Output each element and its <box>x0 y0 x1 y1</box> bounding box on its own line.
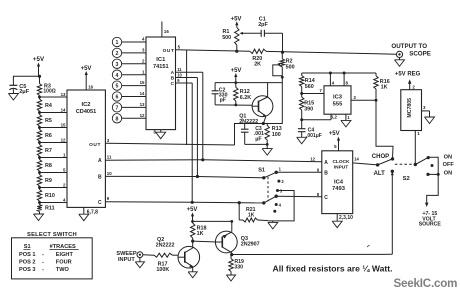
svg-text:100K: 100K <box>156 267 169 273</box>
svg-text:B: B <box>171 76 175 82</box>
wire to scope jack <box>266 51 396 54</box>
svg-text:2K: 2K <box>254 61 261 67</box>
svg-text:R7: R7 <box>45 148 52 154</box>
regulator MC7805 <box>401 90 422 131</box>
node pin7 junction <box>300 92 303 95</box>
svg-text:16: 16 <box>164 29 169 34</box>
node divider top <box>38 75 41 78</box>
svg-text:7493: 7493 <box>332 186 346 192</box>
node C4 junction <box>300 118 303 121</box>
capacitor C3 <box>244 124 246 130</box>
ground (R11) <box>34 214 44 221</box>
counter IC4 7493 <box>322 151 353 214</box>
wire S2b to regulator <box>414 131 416 165</box>
svg-text:15: 15 <box>140 80 145 85</box>
svg-text:B: B <box>324 171 328 177</box>
svg-text:POS 1: POS 1 <box>19 252 35 258</box>
svg-text:10: 10 <box>177 73 182 78</box>
wire IC2 OUT to Q1 emitter node <box>105 143 234 145</box>
svg-text:10: 10 <box>107 171 112 176</box>
op-amp IC1 74151 (data selector) <box>146 37 176 130</box>
svg-text:6.2K: 6.2K <box>240 95 251 101</box>
wire C3/R13 ground bus <box>245 143 268 145</box>
pin 1 ground of IC3 <box>345 114 347 120</box>
svg-text:.001μF: .001μF <box>306 133 322 139</box>
wire to volt source <box>427 157 439 204</box>
pin 16 of IC1 <box>161 22 163 38</box>
switch S2b ON/OFF/ON <box>414 163 417 166</box>
resistor R15 <box>300 97 304 110</box>
svg-text:μF: μF <box>255 136 261 142</box>
svg-text:11: 11 <box>177 67 182 72</box>
svg-text:ON: ON <box>444 155 452 161</box>
svg-text:+5V: +5V <box>187 207 198 213</box>
svg-text:+5V REG: +5V REG <box>395 72 421 78</box>
svg-text:6,2: 6,2 <box>331 115 338 120</box>
svg-text:+5V: +5V <box>329 131 340 137</box>
svg-text:500: 500 <box>222 35 231 41</box>
svg-text:2μF: 2μF <box>19 89 30 95</box>
svg-text:1K: 1K <box>248 212 255 218</box>
svg-text:B: B <box>98 174 102 180</box>
svg-text:ON: ON <box>444 171 452 177</box>
capacitor C4 <box>301 120 303 129</box>
svg-text:INPUT: INPUT <box>118 257 135 263</box>
pin 8 of IC3 <box>343 73 345 86</box>
wire ALT from Q3 <box>391 172 393 255</box>
svg-text:74151: 74151 <box>153 64 169 70</box>
svg-text:5: 5 <box>116 84 119 90</box>
svg-text:560: 560 <box>305 84 314 90</box>
svg-text:+5V: +5V <box>81 66 92 72</box>
svg-text:CD4051: CD4051 <box>76 109 97 115</box>
svg-text:2pF: 2pF <box>258 22 268 28</box>
wire net C <box>176 82 193 84</box>
wires divider taps to IC2 <box>38 96 41 99</box>
svg-text:pF: pF <box>220 98 226 104</box>
svg-text:CHOP: CHOP <box>372 154 389 160</box>
wire +5V top rail (Q1) <box>215 82 282 84</box>
resistor R6 <box>39 128 41 130</box>
svg-text:SELECT SWITCH: SELECT SWITCH <box>27 232 77 238</box>
svg-text:ALT: ALT <box>374 171 386 177</box>
resistor R12 <box>235 83 237 88</box>
pin 4 of IC3 <box>329 73 331 86</box>
pin 3 OUT wire of IC3 <box>351 99 376 101</box>
svg-text:14: 14 <box>61 107 66 112</box>
svg-text:2: 2 <box>116 51 119 57</box>
svg-text:2N2222: 2N2222 <box>156 242 175 248</box>
wire +5V to Q3 emitter <box>193 220 232 222</box>
svg-text:1: 1 <box>116 40 119 46</box>
node R1 junction <box>235 50 238 53</box>
resistor R21 <box>238 201 241 204</box>
svg-text:555: 555 <box>333 101 343 107</box>
svg-text:SeekIC.com: SeekIC.com <box>394 277 458 290</box>
resistor R8 <box>39 158 41 160</box>
ground (sweep jack) <box>135 262 144 268</box>
node Q2 collector <box>191 240 194 243</box>
resistor R19 <box>230 255 232 259</box>
resistor R16 <box>375 73 377 76</box>
svg-text:3: 3 <box>116 62 119 68</box>
resistor R5 <box>39 113 41 115</box>
resistor R14 <box>301 73 303 76</box>
svg-text:+5V: +5V <box>231 16 242 22</box>
pin 7 wire of IC3 <box>302 93 324 95</box>
svg-text:-: - <box>42 252 44 258</box>
ground (scope jack) <box>395 60 405 67</box>
svg-text:C: C <box>324 195 328 201</box>
resistor R4 <box>39 97 41 99</box>
node Q1 emitter <box>262 122 265 125</box>
svg-text:4: 4 <box>116 73 119 79</box>
svg-text:All fixed resistors are ¼ Watt: All fixed resistors are ¼ Watt. <box>273 263 393 273</box>
svg-text:330: 330 <box>234 265 243 271</box>
svg-text:500: 500 <box>286 64 295 70</box>
wire net A <box>176 71 203 73</box>
ground (C5) <box>8 94 18 101</box>
svg-text:EIGHT: EIGHT <box>56 252 74 258</box>
svg-text:IC1: IC1 <box>156 57 166 63</box>
svg-text:S1: S1 <box>258 167 265 173</box>
input terminals 1-8 <box>112 37 121 46</box>
svg-text:11: 11 <box>107 155 112 160</box>
resistor R11 <box>39 203 41 205</box>
svg-text:12: 12 <box>140 113 145 118</box>
svg-text:A: A <box>324 160 328 166</box>
svg-text:16: 16 <box>88 85 93 90</box>
pins 6,2 of IC3 <box>330 114 332 120</box>
svg-text:2N2222: 2N2222 <box>239 119 258 125</box>
wire Q2 collector to Q3 base <box>193 240 217 243</box>
svg-text:6: 6 <box>116 95 119 101</box>
wire gang (dashed) <box>395 163 414 165</box>
svg-text:13: 13 <box>140 102 145 107</box>
transistor Q2 <box>178 246 200 268</box>
svg-text:R5: R5 <box>45 118 52 124</box>
resistor R7 <box>39 143 41 145</box>
wire output feedback <box>186 50 188 145</box>
connector scope jack <box>396 51 402 57</box>
svg-text:1K: 1K <box>381 84 388 90</box>
transistor Q1 <box>252 96 273 117</box>
svg-text:OUTPUT TO: OUTPUT TO <box>391 43 427 50</box>
svg-text:100: 100 <box>272 132 281 138</box>
svg-text:CLOCK: CLOCK <box>332 159 350 165</box>
wire Q3 collector to ALT <box>232 253 393 255</box>
op-amp IC2 CD4051 (analog multiplexer) <box>67 90 105 207</box>
ground (S1) <box>268 222 278 229</box>
svg-text:-: - <box>42 267 44 273</box>
svg-text:IC3: IC3 <box>333 95 343 101</box>
resistor R3 <box>39 76 41 83</box>
wire R2 to emitter node <box>263 77 282 123</box>
potentiometer R1 <box>235 27 239 45</box>
svg-text:OFF: OFF <box>443 162 455 168</box>
wire net B <box>176 77 198 79</box>
svg-text:SCOPE: SCOPE <box>409 51 431 58</box>
svg-text:INPUT: INPUT <box>334 165 348 171</box>
resistor R20 <box>250 49 266 53</box>
svg-text:8: 8 <box>116 116 119 122</box>
svg-text:POS 2: POS 2 <box>19 260 35 266</box>
node C1/R2 junction <box>281 51 284 54</box>
switch S1b <box>262 201 265 204</box>
svg-text:R11: R11 <box>45 206 55 212</box>
svg-text:R4: R4 <box>45 103 52 109</box>
svg-text:15: 15 <box>61 122 66 127</box>
svg-text:S2: S2 <box>403 176 410 182</box>
svg-text:C: C <box>98 200 102 206</box>
svg-text:OUT: OUT <box>89 142 101 148</box>
resistor R13 <box>266 124 268 126</box>
ground (IC4) <box>332 221 342 228</box>
transistor Q3 <box>215 231 237 253</box>
capacitor C5 <box>13 76 39 85</box>
svg-text:100Ω: 100Ω <box>43 89 55 95</box>
svg-text:R10: R10 <box>45 193 55 199</box>
svg-text:IC4: IC4 <box>334 179 344 185</box>
svg-text:C: C <box>171 81 175 87</box>
svg-text:2,3,10: 2,3,10 <box>339 215 353 221</box>
ground (IC1) <box>156 132 166 139</box>
ground (IC2) <box>79 214 89 221</box>
node Q3 collector <box>230 253 233 256</box>
svg-text:POS 3: POS 3 <box>19 267 35 273</box>
wire clock input <box>353 163 378 165</box>
capacitor C1 <box>243 32 261 34</box>
resistor R18 <box>191 223 195 238</box>
svg-text:+5V: +5V <box>231 68 242 74</box>
capacitor C2 <box>214 83 216 91</box>
wires inputs to IC1 <box>122 41 146 43</box>
svg-text:7: 7 <box>116 106 119 112</box>
wire Q1 base <box>215 104 252 106</box>
svg-text:MC7805: MC7805 <box>407 98 413 118</box>
svg-text:A: A <box>98 158 102 164</box>
svg-text:TWO: TWO <box>56 267 70 273</box>
resistor R17 <box>143 254 154 257</box>
svg-text:13: 13 <box>61 92 66 97</box>
svg-text:-: - <box>42 260 44 266</box>
svg-text:+5V: +5V <box>33 56 45 63</box>
svg-text:SOURCE: SOURCE <box>419 222 442 228</box>
svg-text:FOUR: FOUR <box>56 260 72 266</box>
ground (Q2) <box>188 272 197 278</box>
ground (C4) <box>297 137 307 144</box>
svg-text:2N2907: 2N2907 <box>241 242 260 248</box>
svg-text:1K: 1K <box>197 231 204 237</box>
wire S1 ground loop <box>268 191 294 221</box>
svg-text:IC2: IC2 <box>81 102 90 108</box>
svg-text:12: 12 <box>310 156 315 161</box>
svg-text:12: 12 <box>61 137 66 142</box>
svg-text:390: 390 <box>304 106 313 112</box>
svg-text:R6: R6 <box>45 133 52 139</box>
timer IC3 555 <box>324 86 351 114</box>
svg-text:A: A <box>171 70 175 76</box>
svg-text:R9: R9 <box>45 178 52 184</box>
ground (regulator) <box>425 117 435 124</box>
wire 555 out to CHOP contact <box>376 100 393 159</box>
svg-text:R8: R8 <box>45 163 52 169</box>
resistor R10 <box>39 188 41 190</box>
svg-text:OUT: OUT <box>163 48 175 54</box>
wire gang S1 (dashed) <box>267 177 269 201</box>
svg-text:14: 14 <box>354 157 359 162</box>
svg-text:14: 14 <box>140 91 145 96</box>
ground (R19) <box>226 275 235 281</box>
ground (C3/R13) <box>262 149 272 156</box>
potentiometer R2 <box>281 52 283 59</box>
wire main output <box>176 50 251 51</box>
wire 555 top rail <box>302 72 376 74</box>
ground (IC3) <box>341 120 351 127</box>
resistor R9 <box>39 173 41 175</box>
